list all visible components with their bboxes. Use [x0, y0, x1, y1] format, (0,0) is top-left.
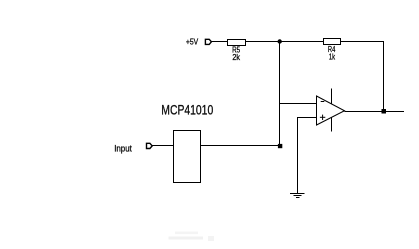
- wire feedback vertical: [279, 42, 281, 147]
- node junction top rail: [278, 39, 282, 43]
- resistor R4: [324, 39, 341, 62]
- wire R5 to R4: [246, 41, 324, 43]
- wire +5V to R5: [211, 41, 227, 43]
- node output junction: [382, 109, 387, 114]
- ground: [290, 194, 305, 198]
- svg-text:+5V: +5V: [186, 37, 198, 47]
- digital potentiometer MCP41010: [161, 102, 213, 182]
- wire input to MCP41010: [152, 145, 173, 147]
- wire R4 to right vertical: [341, 42, 384, 112]
- wire op-amp output: [345, 111, 405, 113]
- input terminal: [114, 143, 152, 154]
- svg-text:MCP41010: MCP41010: [161, 102, 213, 118]
- faint watermark: [169, 232, 215, 242]
- svg-text:2k: 2k: [232, 53, 240, 63]
- svg-text:1k: 1k: [329, 52, 336, 62]
- svg-text:Input: Input: [114, 143, 132, 154]
- wire non-inverting input to ground: [298, 118, 317, 194]
- node MCP output junction: [278, 144, 282, 148]
- power terminal +5V: [186, 37, 212, 47]
- op-amp U1: [317, 89, 345, 132]
- wire to op-amp inverting input: [280, 103, 317, 105]
- resistor R5: [228, 40, 246, 63]
- wire MCP41010 wiper to feedback node: [201, 145, 280, 147]
